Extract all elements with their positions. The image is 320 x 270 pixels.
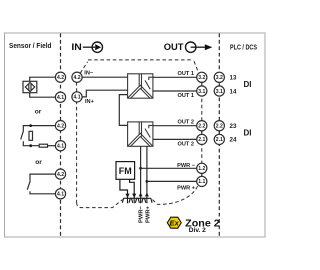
wire OUT2b to terminal 2.1 [153, 138, 198, 140]
plug connector T4 [142, 198, 152, 203]
terminal 4.2 (pair2 field) [55, 121, 65, 131]
svg-text:or: or [35, 159, 42, 166]
plug connector T1 [122, 198, 132, 203]
svg-text:FM: FM [119, 166, 132, 176]
svg-text:4.2: 4.2 [57, 123, 64, 129]
svg-text:4.1: 4.1 [57, 192, 64, 198]
device outline dashed: top edge [88, 59, 194, 61]
svg-text:Ex: Ex [169, 219, 179, 228]
svg-text:4.1: 4.1 [73, 95, 80, 101]
svg-text:13: 13 [230, 75, 237, 82]
terminal 4.1 (pair1 field) [55, 92, 65, 102]
wire PWR+ vertical from U2 [146, 146, 148, 198]
svg-text:3.1: 3.1 [198, 89, 205, 95]
svg-text:4.2: 4.2 [57, 75, 64, 81]
switch S1 with resistors [21, 126, 57, 146]
terminal 2.2 (device) [197, 121, 207, 131]
terminal 3.1 (PLC) [214, 86, 224, 96]
svg-text:IN−: IN− [84, 71, 94, 77]
arrow up T3 [139, 193, 143, 197]
svg-text:1.2: 1.2 [198, 166, 205, 172]
terminal 4.1 (pair3 field) [55, 189, 65, 199]
wire PWR- to terminal 1.2 [141, 167, 198, 169]
svg-text:23: 23 [230, 123, 237, 130]
junction dot PWR- [139, 167, 142, 170]
svg-text:3.2: 3.2 [216, 75, 223, 81]
isolator U1 [128, 74, 153, 98]
svg-text:4.1: 4.1 [57, 95, 64, 101]
svg-text:DI: DI [244, 80, 252, 89]
connector stub 2.2-2.1 device [201, 130, 203, 136]
svg-text:2.2: 2.2 [198, 124, 205, 130]
svg-text:24: 24 [230, 137, 237, 144]
wire FM right to connector T2 [130, 179, 135, 198]
terminal 4.2 (device) [72, 72, 82, 82]
resistor R2 (series) [39, 144, 47, 147]
junction dot PWR+ [146, 180, 149, 183]
device outline dashed: left diagonal [80, 62, 87, 73]
svg-text:3.1: 3.1 [216, 89, 223, 95]
connector stub 2.2-2.1 PLC [218, 130, 220, 136]
IN symbol (line into circle with arrow) [83, 42, 103, 52]
FM module [116, 162, 135, 180]
switch S2 [27, 174, 57, 194]
wire OUT2a to terminal 2.2 [153, 125, 198, 127]
svg-text:2.1: 2.1 [216, 137, 223, 143]
svg-text:PLC / DCS: PLC / DCS [230, 42, 257, 51]
svg-text:2.1: 2.1 [198, 137, 205, 143]
zone boundary dashed line (PLC/DCS) [218, 34, 220, 237]
terminal 2.1 (PLC) [214, 134, 224, 144]
svg-text:4.2: 4.2 [57, 172, 64, 178]
connector stub 3.2-3.1 device [201, 82, 203, 87]
svg-text:4.2: 4.2 [73, 75, 80, 81]
device outline dashed: right diagonal [194, 61, 199, 73]
svg-text:IN+: IN+ [85, 99, 95, 105]
svg-text:DI: DI [244, 129, 252, 138]
proximity sensor B1 [23, 81, 37, 92]
resistor R1 (parallel) [29, 131, 33, 140]
zone boundary dashed line (Sensor/Field) [60, 34, 62, 237]
svg-text:OUT 1: OUT 1 [178, 93, 194, 99]
terminal 1.1 (device) [197, 176, 207, 186]
wire IN- from 4.2 to isolator [81, 76, 128, 78]
device outline dashed: right vertical through terminals [201, 80, 203, 184]
junction dot bottom [29, 144, 32, 147]
svg-text:OUT: OUT [164, 42, 184, 53]
svg-text:4.1: 4.1 [57, 144, 64, 150]
terminal 3.1 (device) [197, 86, 207, 96]
connector stub 1.2-1.1 device [201, 173, 203, 178]
svg-text:or: or [35, 109, 42, 116]
wire sensor B1 bottom to terminal 4.1 [30, 93, 57, 98]
wire PWR- vertical from U2 [140, 146, 142, 198]
wire OUT1b to terminal 3.1 [153, 90, 198, 92]
wire FM left to connector T1 [120, 179, 128, 198]
Ex hexagon symbol [167, 217, 181, 228]
arrow down T2 [132, 194, 136, 198]
isolator U2 [128, 122, 153, 146]
svg-text:2.2: 2.2 [216, 124, 223, 130]
svg-text:PWR−: PWR− [139, 205, 145, 223]
svg-text:14: 14 [230, 88, 237, 95]
svg-text:OUT 1: OUT 1 [178, 71, 194, 77]
svg-text:PWR −: PWR − [177, 163, 196, 169]
connector stub 3.2-3.1 PLC [218, 82, 220, 87]
wire tap from isolator U1 to isolator U2 [119, 95, 127, 126]
terminal 4.1 (pair2 field) [55, 141, 65, 151]
device outline dashed: bottom-right rise to terminal 1.1 [153, 186, 198, 204]
svg-text:Sensor / Field: Sensor / Field [9, 41, 52, 50]
terminal 2.1 (device) [197, 134, 207, 144]
device outline dashed: bottom-left corner and bottom edge [77, 200, 123, 208]
terminal 2.2 (PLC) [214, 121, 224, 131]
terminal 4.2 (pair1 field) [55, 72, 224, 199]
junction dot top [29, 124, 32, 127]
device outline dashed: left vertical [76, 82, 78, 203]
terminal 4.2 (pair3 field) [55, 169, 65, 179]
arrow down T1 [125, 194, 129, 198]
svg-text:Div. 2: Div. 2 [189, 227, 207, 234]
terminal 1.2 (device) [197, 163, 207, 173]
svg-text:PWR+: PWR+ [146, 205, 152, 223]
frame border [5, 33, 266, 237]
OUT symbol (circle with arrow out) [186, 42, 213, 52]
wire PWR+ to terminal 1.1 [147, 180, 198, 182]
svg-text:IN: IN [71, 42, 82, 53]
svg-text:OUT 2: OUT 2 [178, 141, 194, 147]
arrow up T4 [145, 193, 149, 197]
terminal 3.2 (device) [197, 72, 207, 82]
plug connector T2 [129, 198, 139, 203]
wire IN+ from 4.1 to isolator (stepped) [81, 90, 128, 97]
terminal 3.2 (PLC) [214, 72, 224, 82]
svg-text:PWR +: PWR + [177, 186, 196, 192]
svg-text:3.2: 3.2 [198, 75, 205, 81]
terminal 4.1 (device) [72, 92, 82, 102]
svg-text:1.1: 1.1 [198, 179, 205, 185]
wire OUT1a to terminal 3.2 [153, 76, 198, 78]
wire sensor B1 top to terminal 4.2 [30, 77, 57, 81]
plug connector T3 [135, 198, 145, 203]
svg-text:OUT 2: OUT 2 [178, 120, 194, 126]
